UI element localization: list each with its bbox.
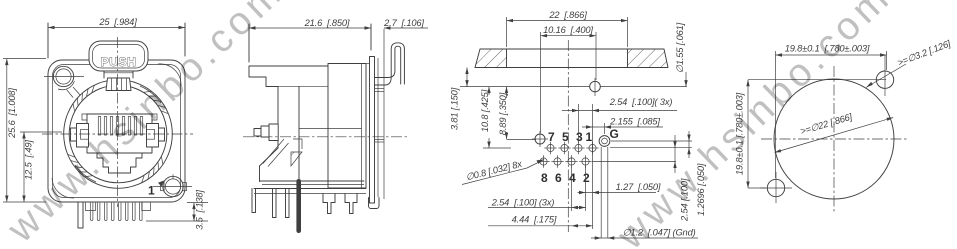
mounting hole top right bbox=[876, 55, 893, 96]
side view latch hook bracket bbox=[375, 43, 405, 85]
dimension 2.54 (3x) bottom bbox=[488, 167, 586, 211]
svg-text:10.16 [.400]: 10.16 [.400] bbox=[543, 25, 593, 35]
svg-text:5: 5 bbox=[562, 130, 569, 144]
svg-text:3.5 [.138]: 3.5 [.138] bbox=[195, 190, 205, 230]
bezel circles bbox=[64, 80, 173, 189]
svg-text:2.54 [.100] (3x): 2.54 [.100] (3x) bbox=[491, 198, 555, 208]
horizontal dim 19.8 bbox=[776, 44, 887, 179]
svg-text:8: 8 bbox=[541, 171, 548, 185]
view 4 centerlines bbox=[761, 66, 907, 212]
dimension 2.54 (3x) upper right bbox=[562, 97, 677, 196]
side view latch detail bbox=[263, 139, 302, 167]
dimension 8.89 [.350] bbox=[498, 87, 536, 140]
svg-text:3.81 [.150]: 3.81 [.150] bbox=[450, 87, 460, 130]
dimension 2.155 [.085] bbox=[582, 117, 663, 135]
front view centerlines bbox=[42, 37, 193, 207]
svg-text:4.44 [.175]: 4.44 [.175] bbox=[512, 215, 557, 225]
svg-text:8.89 [.350]: 8.89 [.350] bbox=[498, 92, 508, 135]
side view main block bbox=[299, 58, 384, 197]
dia 1.55 label bbox=[675, 22, 688, 86]
label dia 1.2 Gnd bbox=[591, 147, 698, 240]
side view front pin cylinder bbox=[254, 124, 278, 141]
panel circle bbox=[774, 79, 894, 199]
dimension 3.5 [.138] below view 1 bbox=[146, 190, 208, 230]
svg-text:25.6 [1.008]: 25.6 [1.008] bbox=[7, 88, 17, 139]
dimension 12.5 [.49] left of view 1 bbox=[3, 132, 62, 202]
dimension 25 [.984] top of view 1 bbox=[48, 17, 185, 58]
watermark left bbox=[0, 0, 292, 249]
svg-text:G: G bbox=[610, 127, 619, 141]
jack side tabs bbox=[71, 124, 165, 148]
dimension 3.81 [.150] bbox=[450, 68, 469, 131]
pad number labels bbox=[541, 127, 619, 185]
pads bottom row bbox=[537, 155, 591, 167]
svg-text:2.155 [.085]: 2.155 [.085] bbox=[609, 117, 660, 127]
rj45 jack bbox=[82, 114, 157, 173]
dimension 2.7 [.106] bbox=[383, 18, 428, 199]
svg-text:4: 4 bbox=[569, 171, 576, 185]
ground pad bbox=[599, 136, 610, 147]
svg-text:12.5 [.49]: 12.5 [.49] bbox=[24, 140, 34, 180]
dimension 21.6 [.850] bbox=[249, 18, 371, 62]
svg-text:10.8 [.425]: 10.8 [.425] bbox=[480, 89, 490, 132]
dia 3.2 leader bbox=[866, 38, 952, 87]
dia 22 leader bbox=[775, 112, 894, 153]
front view flange bbox=[48, 60, 185, 202]
bezel ring knurl ticks bbox=[68, 85, 168, 182]
side view body outline bbox=[249, 66, 328, 182]
dimension 1.27 [.050] bbox=[578, 166, 661, 211]
svg-text:PUSH: PUSH bbox=[101, 55, 137, 69]
label dia 0.8 8x with leader bbox=[462, 159, 545, 185]
svg-text:2: 2 bbox=[583, 171, 590, 185]
dimension 10.8 [.425] bbox=[480, 87, 511, 148]
dimension 10.16 [.400] bbox=[541, 25, 597, 133]
hole 1.55 bbox=[590, 78, 601, 96]
svg-text:21.6 [.850]: 21.6 [.850] bbox=[304, 18, 350, 28]
side view legs bbox=[252, 179, 357, 233]
flange section top bbox=[475, 49, 668, 68]
mounting hole bottom left bbox=[760, 172, 792, 203]
side view flange plate bbox=[366, 57, 379, 209]
dimension 22 [.866] bbox=[507, 10, 628, 47]
svg-text:∅1.55 [.061]: ∅1.55 [.061] bbox=[675, 22, 685, 73]
screw hole top-left bbox=[44, 66, 84, 97]
corner boss arcs bbox=[52, 64, 181, 198]
screw hole bottom-right bbox=[153, 174, 192, 196]
svg-text:6: 6 bbox=[555, 171, 562, 185]
svg-text:25 [.984]: 25 [.984] bbox=[98, 17, 137, 27]
side view centerline bbox=[243, 136, 409, 138]
solder pins front bbox=[78, 203, 151, 228]
svg-text:1: 1 bbox=[148, 184, 155, 198]
pin 1 marker bbox=[148, 181, 164, 198]
svg-text:2.7 [.106]: 2.7 [.106] bbox=[383, 18, 424, 28]
push tab bbox=[89, 41, 148, 71]
centerline view 3 bbox=[567, 40, 569, 232]
svg-text:22 [.866]: 22 [.866] bbox=[548, 10, 587, 20]
dimension 4.44 [.175] bbox=[488, 196, 593, 229]
side view bottom lines bbox=[254, 181, 366, 194]
hole 1.55 left lower bbox=[532, 131, 548, 147]
dimension 25.6 [1.008] left of view 1 bbox=[3, 59, 46, 202]
body reference line with hole bbox=[460, 86, 687, 88]
watermark right bbox=[609, 0, 900, 249]
svg-text:7: 7 bbox=[548, 130, 555, 144]
latch between tab and jack bbox=[104, 71, 133, 91]
svg-text:2.54 [.100]( 3x): 2.54 [.100]( 3x) bbox=[609, 97, 673, 107]
pads top row bbox=[544, 142, 598, 154]
svg-text:1: 1 bbox=[586, 130, 593, 144]
vertical dim 19.8 bbox=[735, 80, 887, 188]
right side vertical dims bbox=[592, 131, 706, 222]
svg-text:3: 3 bbox=[576, 130, 583, 144]
